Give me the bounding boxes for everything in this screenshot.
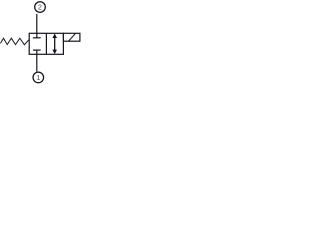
svg-text:1: 1	[36, 75, 40, 82]
blocked port top (closed position)	[36, 33, 38, 38]
flow path double arrow (open position)	[54, 36, 56, 52]
position divider	[45, 33, 47, 54]
wire valve to port 1	[36, 54, 38, 71]
blocked port bottom (closed position)	[33, 49, 41, 51]
spring	[0, 38, 28, 45]
wire port2 to valve	[36, 14, 38, 33]
svg-text:2: 2	[38, 5, 42, 12]
solenoid diagonal	[69, 34, 76, 42]
port 1 circle	[33, 72, 44, 83]
arrowhead top	[52, 34, 57, 39]
valve body outline	[29, 33, 63, 54]
solenoid box	[63, 33, 80, 41]
arrowhead bottom	[52, 50, 57, 55]
port 2 circle	[35, 2, 46, 13]
